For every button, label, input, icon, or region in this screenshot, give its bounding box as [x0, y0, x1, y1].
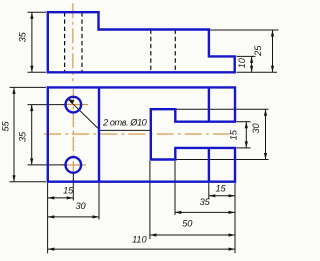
dim 15 plan right middle	[237, 122, 251, 148]
plan inner vertical x=99	[98, 87, 100, 181]
crosshair hole top	[62, 104, 89, 106]
svg-text:30: 30	[251, 123, 261, 134]
dim 35 bottom right	[175, 161, 235, 215]
svg-text:15: 15	[215, 184, 226, 194]
dim 50 bottom right	[150, 161, 235, 239]
hidden recess lines top view	[150, 30, 152, 73]
svg-text:35: 35	[17, 131, 27, 142]
hole top	[66, 97, 82, 113]
centerline vertical top view	[72, 3, 74, 81]
plan inner vertical x=208.9 lower	[208, 148, 210, 182]
top view outline	[48, 12, 235, 72]
svg-text:10: 10	[237, 57, 247, 68]
svg-text:25: 25	[253, 45, 263, 57]
dim 35 plan left	[28, 105, 68, 165]
dim 55 plan left	[10, 87, 47, 181]
leader 2 holes callout	[68, 99, 152, 131]
svg-text:50: 50	[182, 218, 193, 228]
centerline vertical plan view through holes	[72, 89, 74, 181]
svg-text:35: 35	[18, 31, 28, 42]
hidden hole lines top view	[64, 12, 66, 72]
dim 10 top view right	[237, 56, 278, 72]
dim 35 top view left	[28, 12, 47, 72]
hole bottom	[66, 157, 82, 173]
svg-text:35: 35	[200, 197, 211, 207]
crosshair hole bottom	[62, 164, 87, 166]
plan view outline	[48, 87, 235, 181]
centerline horizontal plan view	[44, 133, 230, 135]
dim 30 plan right middle	[177, 109, 269, 159]
dim 15 bottom right	[209, 183, 235, 199]
svg-text:2 отв. Ø10: 2 отв. Ø10	[102, 117, 148, 127]
svg-text:55: 55	[1, 121, 11, 132]
plan inner vertical x=208.9 upper	[208, 87, 210, 121]
svg-text:30: 30	[75, 201, 86, 211]
dim 25 top view right	[210, 30, 279, 72]
dim 110 bottom	[48, 183, 235, 253]
svg-text:110: 110	[132, 234, 147, 244]
dim 15 bottom left	[48, 174, 74, 254]
dim 30 bottom left	[48, 183, 99, 220]
svg-text:15: 15	[63, 186, 74, 196]
svg-text:15: 15	[229, 129, 239, 140]
